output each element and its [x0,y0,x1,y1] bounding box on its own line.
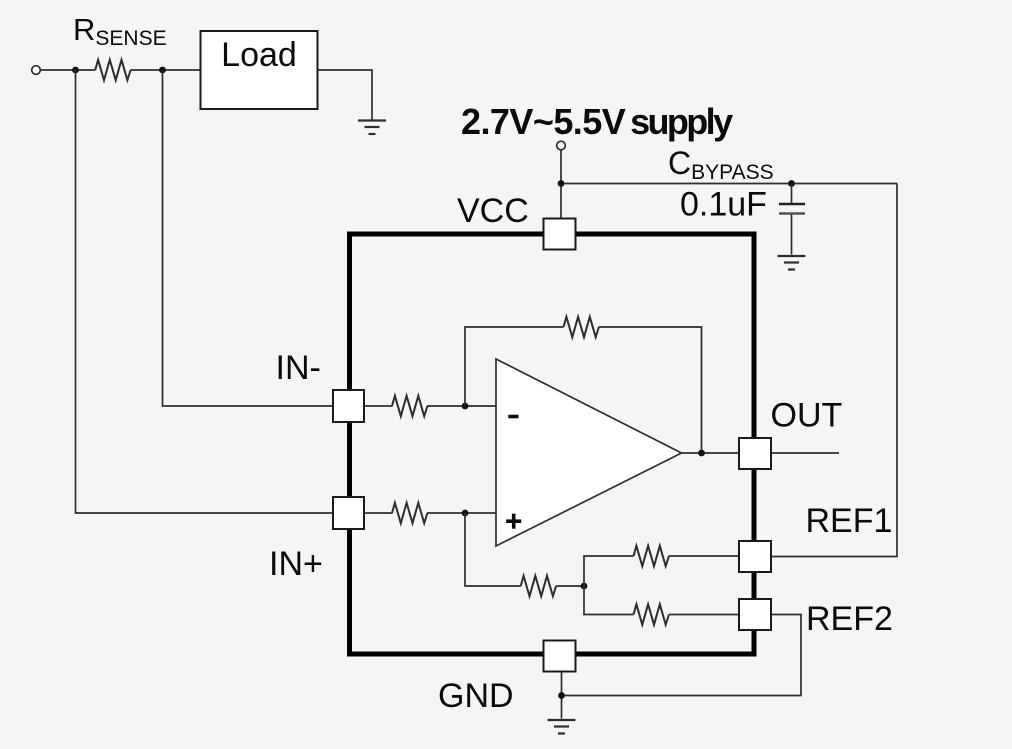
svg-text:VCC: VCC [457,192,529,230]
ground (bypass cap) [778,256,806,270]
capacitor C_BYPASS [779,184,805,255]
ground (load) [358,121,386,135]
svg-text:2.7V~5.5V supply: 2.7V~5.5V supply [461,101,733,142]
node divider [581,583,588,590]
wire input terminal to R_SENSE [40,69,95,71]
node ground [558,692,565,699]
node A (input) [72,67,79,74]
node output [698,450,705,457]
node minus input [462,403,469,410]
wire GND pin to ground [561,672,563,719]
wire divider to REF2 row [584,586,634,615]
svg-text:REF2: REF2 [806,600,893,638]
pin GND [544,641,576,672]
wire supply terminal to VCC pin [560,150,562,219]
resistor IN+ input [392,503,427,523]
svg-text:REF1: REF1 [806,502,893,540]
ground (GND pin) [548,720,576,734]
svg-text:GND: GND [438,677,514,715]
resistor divider input [521,576,556,596]
resistor R_SENSE [95,60,130,80]
wire IN- pin to op-amp minus input [364,405,393,407]
wire op-amp output to OUT pin [682,452,740,454]
node plus input [462,510,469,517]
svg-text:IN-: IN- [276,349,321,387]
wire R_SENSE to Load [131,69,201,71]
op-amp U1 [496,359,682,546]
node supply [558,180,565,187]
svg-text:Load: Load [221,36,297,74]
wire OUT open end [771,452,839,454]
svg-text:OUT: OUT [771,397,843,435]
wire node A down to IN+ [76,70,334,513]
svg-text:IN+: IN+ [269,545,323,583]
load box [201,31,318,109]
node B (load side) [159,67,166,74]
svg-text:0.1uF: 0.1uF [680,186,767,224]
pin IN+ [333,497,364,529]
op-amp plus sign [506,514,521,529]
wire REF1 to bypass node [771,184,897,557]
pin OUT [739,438,771,469]
pin VCC [544,219,576,250]
input terminal circle [32,66,41,75]
resistor IN- input [392,396,427,416]
wire node B down to IN- [163,70,334,406]
pin IN- [333,390,364,422]
resistor feedback [564,317,599,337]
wire divider to REF1 row [584,556,634,586]
pin REF1 [739,541,771,572]
wire Load to ground [318,70,373,120]
resistor REF1 [634,546,669,566]
supply terminal circle [557,141,566,150]
IC box [350,234,755,654]
wire IN+ pin to op-amp plus input [364,512,393,514]
wire feedback right side [599,327,702,453]
wire to divider node [556,585,584,587]
wire supply node to bypass corner [561,183,897,185]
node C_BYPASS [788,180,795,187]
resistor REF2 [634,604,669,624]
op-amp minus sign [508,415,518,419]
wire feedback loop [465,327,564,406]
wire divider riser [465,513,521,586]
wire REF2 to ground node [562,615,802,696]
wire resistor to REF1 pin [669,555,739,557]
pin REF2 [739,599,771,630]
wire resistor to REF2 pin [669,614,739,616]
